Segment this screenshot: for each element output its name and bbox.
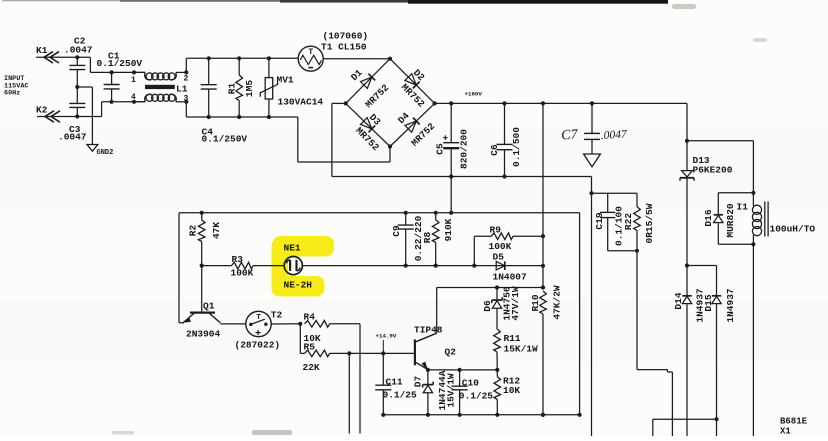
svg-text:R5: R5	[304, 342, 316, 353]
svg-text:D6: D6	[482, 300, 493, 312]
resistor R2	[200, 211, 204, 215]
ground GND2	[77, 86, 92, 88]
capacitor C4	[207, 56, 211, 60]
diode D2 MR752	[405, 74, 416, 85]
capacitor C6	[502, 101, 506, 105]
svg-text:0.1/250V: 0.1/250V	[202, 134, 248, 145]
ground (C7)	[584, 154, 601, 167]
svg-text:(287022): (287022)	[235, 340, 281, 351]
resistor R22	[636, 193, 638, 206]
wire Q2 collector to R10 top	[437, 287, 543, 289]
svg-text:1N4007: 1N4007	[493, 272, 528, 283]
transistor Q2 TIP48	[414, 340, 416, 366]
capacitor C5	[449, 101, 453, 105]
svg-text:C10: C10	[462, 378, 479, 389]
capacitor C3	[69, 102, 85, 104]
wire R5 right down	[348, 353, 350, 433]
snubber branch wire	[592, 192, 638, 194]
svg-text:100uH/TO: 100uH/TO	[770, 224, 816, 235]
svg-text:2: 2	[184, 75, 189, 84]
svg-text:100K: 100K	[231, 268, 254, 279]
+160V rail	[435, 102, 687, 104]
wire +160V rail corner down	[686, 103, 688, 170]
capacitor C9	[404, 211, 408, 215]
input terminal K1	[36, 56, 90, 58]
svg-text:D7: D7	[412, 376, 423, 388]
svg-text:.0047: .0047	[601, 129, 629, 142]
wire K2 to C1 bottom	[101, 102, 103, 117]
trigger transformer T2 (287022)	[246, 311, 271, 336]
zener D6 1N4756	[496, 288, 498, 300]
svg-text:MV1: MV1	[277, 75, 294, 86]
svg-text:D14: D14	[673, 292, 684, 309]
resistor R4	[305, 321, 330, 328]
svg-text:0.1/250V: 0.1/250V	[97, 58, 143, 69]
resistor R11	[494, 329, 501, 352]
bottom rail	[383, 414, 579, 416]
resistor R8	[434, 211, 438, 215]
thermistor T1	[298, 46, 323, 71]
svg-text:T1 CL150: T1 CL150	[321, 42, 367, 53]
svg-text:820/200: 820/200	[458, 129, 469, 169]
svg-text:1: 1	[131, 76, 136, 85]
resistor R1	[237, 56, 241, 60]
diode D1 MR752	[360, 77, 371, 88]
bridge rectifier frame	[346, 59, 390, 104]
svg-text:T: T	[308, 48, 313, 57]
svg-text:C7: C7	[561, 127, 579, 143]
svg-text:C6: C6	[489, 144, 500, 156]
svg-text:1M5: 1M5	[244, 80, 255, 97]
svg-text:+160V: +160V	[465, 91, 483, 98]
svg-text:0R15/5W: 0R15/5W	[644, 203, 655, 243]
wire bridge negative output	[332, 102, 346, 104]
svg-text:0.1/25: 0.1/25	[383, 390, 418, 401]
primary common rail	[179, 212, 580, 214]
wire T1 to bridge top	[323, 58, 390, 60]
capacitor C7	[590, 101, 594, 105]
wire base Q2	[383, 352, 414, 354]
svg-text:10K: 10K	[503, 385, 520, 396]
svg-text:.0047: .0047	[64, 45, 93, 56]
svg-text:R2: R2	[188, 225, 199, 237]
wire R4 right down	[359, 324, 361, 434]
svg-text:TIP48: TIP48	[414, 325, 443, 336]
choke L1	[132, 70, 136, 74]
svg-text:R22: R22	[623, 213, 634, 230]
svg-text:K1: K1	[36, 45, 48, 56]
svg-text:47K: 47K	[211, 222, 222, 239]
capacitor C11	[382, 353, 384, 385]
svg-text:C9: C9	[391, 225, 402, 237]
capacitor C19	[607, 193, 609, 212]
wire R22 bottom down and right	[636, 251, 638, 370]
svg-text:I1: I1	[737, 202, 749, 213]
wire NE1 to C9/R8 bottoms and D5	[302, 265, 474, 267]
svg-text:R8: R8	[422, 232, 433, 244]
neon lamp NE1	[284, 257, 302, 275]
resistor R12	[496, 370, 498, 377]
svg-text:L1: L1	[176, 84, 188, 95]
diode D4 MR752	[405, 121, 416, 132]
svg-text:T2: T2	[271, 310, 283, 321]
resistor R10	[540, 291, 547, 314]
wire to D16/I1	[687, 140, 753, 142]
diode D14 1N4937	[685, 263, 689, 267]
svg-text:Q2: Q2	[445, 347, 457, 358]
diode D5 1N4007	[474, 265, 543, 267]
svg-text:130VAC14: 130VAC14	[278, 97, 324, 108]
svg-text:60Hz: 60Hz	[4, 90, 20, 98]
svg-text:15K/1W: 15K/1W	[504, 344, 539, 355]
svg-text:(107060): (107060)	[323, 31, 369, 42]
svg-text:NE1: NE1	[284, 243, 301, 254]
svg-text:NE-2H: NE-2H	[284, 280, 313, 291]
svg-text:R4: R4	[304, 312, 316, 323]
capacitor C1	[110, 70, 114, 74]
svg-text:0.1/25: 0.1/25	[459, 391, 494, 402]
resistor R5	[299, 324, 301, 354]
svg-text:P6KE200: P6KE200	[693, 165, 733, 176]
emitter node wire	[428, 369, 497, 371]
wire bottom AC rail to bridge bottom	[297, 117, 299, 162]
svg-text:1N4937: 1N4937	[725, 288, 736, 323]
svg-text:R3: R3	[232, 254, 244, 265]
wire L1 pin3 to bottom AC rail	[185, 102, 187, 117]
freewheel diode D16 MUR820	[718, 192, 753, 194]
svg-text:2N3904: 2N3904	[186, 329, 221, 340]
svg-text:0.1/500: 0.1/500	[511, 127, 522, 167]
capacitor C2	[76, 57, 78, 65]
wire +160V tap down to R9/D5/R10	[541, 101, 545, 105]
TVS diode D13 P6KE200	[682, 171, 693, 177]
svg-text:C19: C19	[594, 212, 605, 229]
svg-text:D15: D15	[703, 294, 714, 311]
wire D15 output	[714, 417, 718, 421]
transistor Q1 2N3904	[201, 266, 203, 313]
varistor MV1	[267, 56, 271, 60]
svg-text:47K/2W: 47K/2W	[552, 285, 563, 320]
wire I1 down	[752, 244, 754, 436]
svg-text:B681E: B681E	[780, 417, 808, 427]
svg-text:.0047: .0047	[58, 132, 87, 143]
svg-text:47V/1W: 47V/1W	[510, 286, 521, 321]
svg-text:GND2: GND2	[97, 149, 114, 157]
resistor R3	[202, 265, 232, 267]
diode D15 1N4937	[687, 265, 717, 267]
input terminal K2	[37, 116, 102, 118]
svg-text:22K: 22K	[303, 362, 320, 373]
resistor R9	[473, 236, 475, 265]
scan edge artifact	[2, 0, 122, 1]
svg-text:100K: 100K	[489, 241, 512, 252]
yellow highlighter mark around NE1	[272, 236, 335, 297]
svg-text:K2: K2	[36, 105, 48, 116]
svg-text:4: 4	[131, 93, 136, 102]
inductor I1	[751, 242, 755, 246]
wire C5 bottom to common rail	[450, 177, 452, 213]
svg-text:R11: R11	[504, 333, 521, 344]
svg-text:MUR820: MUR820	[725, 203, 736, 238]
wire L1 pin2 to top AC rail	[185, 58, 187, 72]
svg-text:D16: D16	[703, 209, 714, 226]
svg-text:R1: R1	[227, 83, 238, 95]
zener D7 1N4744A	[427, 370, 429, 385]
svg-text:R10: R10	[530, 294, 541, 311]
diode D3 MR752	[360, 118, 371, 129]
svg-text:X1: X1	[780, 427, 791, 437]
svg-text:R9: R9	[490, 225, 502, 236]
svg-text:C11: C11	[386, 377, 403, 388]
svg-text:D5: D5	[493, 252, 505, 263]
svg-text:C5: C5	[435, 143, 446, 155]
svg-text:910K: 910K	[443, 218, 454, 241]
capacitor C10	[459, 370, 461, 386]
wire K1 to C1 (step)	[89, 57, 91, 72]
svg-text:+14.9V: +14.9V	[376, 333, 397, 340]
svg-text:Q1: Q1	[203, 301, 215, 312]
